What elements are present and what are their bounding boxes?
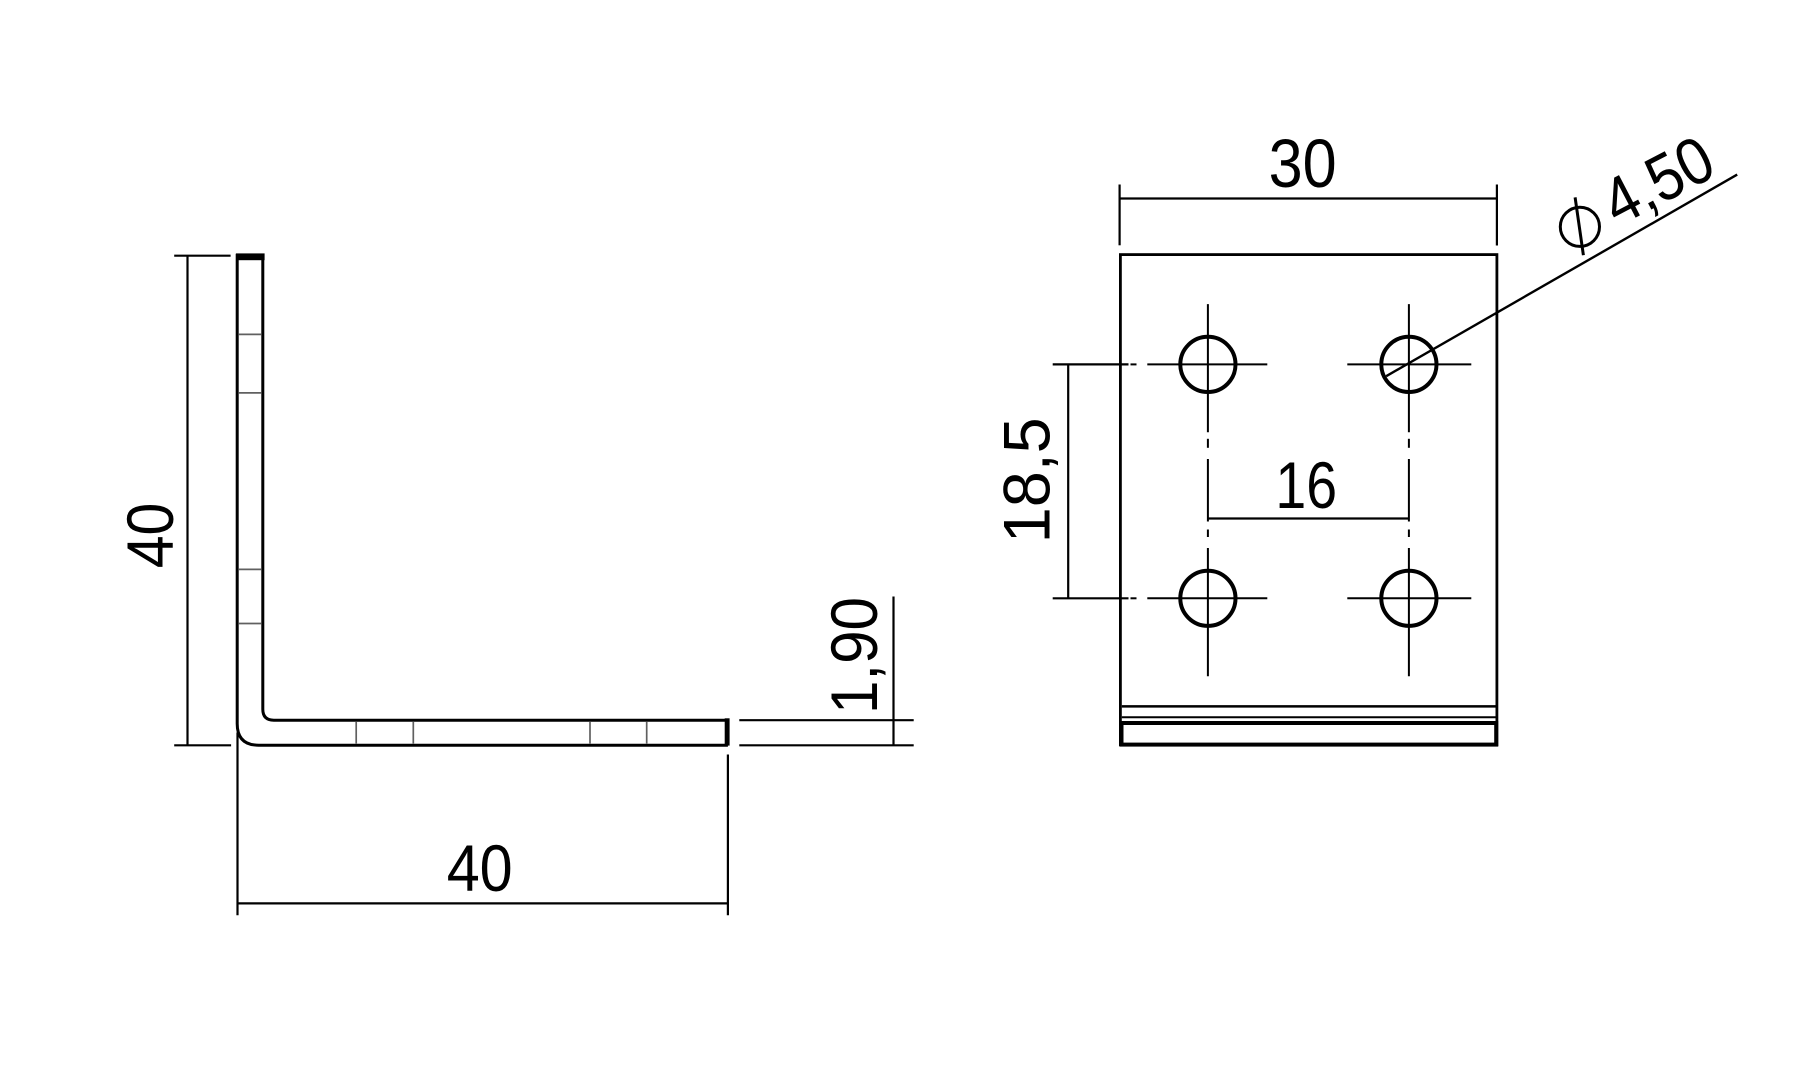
dimension 40 vertical: bottom extension line: [174, 744, 231, 746]
front view: hole top-left circle: [1180, 337, 1235, 392]
front view: hole bottom-right circle: [1381, 571, 1436, 626]
dimension 30: right extension line: [1496, 185, 1498, 246]
left view: hole silhouette tick on horizontal flange (near hole inner edge): [589, 722, 591, 744]
svg-text:40: 40: [447, 831, 513, 905]
front view: hole bottom-left circle: [1180, 571, 1235, 626]
left view: inner profile of angle bracket: [263, 257, 728, 720]
dimension 30: left extension line: [1118, 185, 1120, 246]
svg-text:40: 40: [113, 503, 187, 569]
front view: bend tangent line lower: [1122, 716, 1496, 718]
dimension 30: dimension line: [1120, 197, 1497, 199]
front view: bend tangent line upper: [1122, 705, 1496, 708]
dimension 16: dimension line: [1208, 517, 1409, 519]
front view: horizontal centerline bottom row: [1131, 597, 1472, 599]
left view: hole silhouette tick on horizontal flange (far hole outer edge): [355, 722, 357, 744]
front view: plate outline rectangle: [1120, 255, 1497, 745]
dimension 40 vertical: dimension line: [186, 256, 188, 746]
front view: hole top-right circle: [1381, 337, 1436, 392]
left view: hole silhouette tick on vertical flange (top hole lower edge): [239, 392, 261, 394]
dimension 1,90 thickness: dimension line: [892, 597, 894, 746]
svg-text:16: 16: [1275, 448, 1337, 522]
dimension 18,5: top extension line: [1053, 363, 1129, 365]
dimension 40 horizontal: right extension line: [727, 755, 729, 916]
front view: vertical centerline right column: [1408, 304, 1410, 676]
front view: bottom flange edge strip: [1122, 723, 1497, 745]
dimension 18,5: bottom extension line: [1053, 597, 1129, 599]
left view: top end cap of vertical flange: [236, 253, 265, 260]
left view: hole silhouette tick on vertical flange (bottom hole lower edge): [239, 623, 261, 625]
svg-text:30: 30: [1269, 125, 1337, 202]
left view: hole silhouette tick on vertical flange (top hole upper edge): [239, 333, 261, 335]
left view: outer profile of angle bracket: [237, 254, 728, 745]
hole callout: diameter symbol slash: [1575, 197, 1583, 255]
svg-text:1,90: 1,90: [817, 597, 891, 714]
left view: hole silhouette tick on horizontal flange (near hole outer edge): [646, 722, 648, 744]
dimension 40 horizontal: left extension line: [236, 733, 238, 916]
dimension 40 horizontal: dimension line: [238, 902, 728, 904]
dimension 1,90 thickness: top extension line: [739, 719, 913, 721]
left view: hole silhouette tick on vertical flange (bottom hole upper edge): [239, 568, 261, 570]
dimension 40 vertical: top extension line: [174, 255, 230, 257]
front view: horizontal centerline top row: [1131, 363, 1472, 365]
hole callout: leader line to top-right hole: [1386, 175, 1737, 377]
svg-text:18,5: 18,5: [990, 417, 1064, 543]
dimension 18,5: dimension line: [1067, 364, 1069, 598]
hole callout: diameter symbol circle: [1560, 207, 1599, 246]
front view: vertical centerline left column: [1207, 304, 1209, 676]
left view: hole silhouette tick on horizontal flange (far hole inner edge): [412, 722, 414, 744]
dimension 1,90 thickness: bottom extension line: [739, 744, 913, 746]
left view: right end cap of horizontal flange: [725, 718, 730, 745]
